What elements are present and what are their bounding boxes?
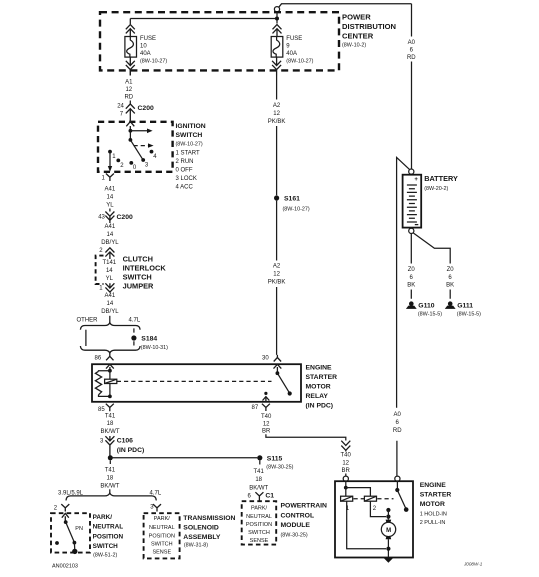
svg-text:M: M	[386, 528, 391, 534]
svg-text:BK: BK	[446, 283, 454, 289]
svg-text:YL: YL	[106, 202, 114, 208]
svg-text:3 LOCK: 3 LOCK	[176, 176, 197, 182]
ground G111	[445, 301, 481, 317]
svg-text:Z0: Z0	[408, 267, 416, 273]
svg-text:T41: T41	[105, 413, 116, 419]
svg-text:MODULE: MODULE	[281, 522, 311, 529]
connector C200 pin 43	[98, 209, 133, 224]
svg-text:NEUTRAL: NEUTRAL	[93, 524, 124, 531]
relay pin 87 contact	[263, 392, 270, 402]
splice S115	[257, 455, 293, 470]
svg-text:TRANSMISSION: TRANSMISSION	[183, 515, 235, 522]
wire A0 6 RD right vertical (upper)	[411, 4, 413, 169]
fuse F9 connector chevrons (bottom)	[272, 57, 281, 75]
svg-text:A1: A1	[125, 79, 133, 85]
svg-text:CENTER: CENTER	[342, 31, 374, 40]
svg-text:BK/WT: BK/WT	[100, 483, 119, 489]
battery eyelet (negative)	[409, 228, 414, 233]
svg-text:T40: T40	[341, 453, 352, 459]
label TRANSMISSION SOLENOID ASSEMBLY	[183, 515, 235, 549]
fuse F10	[125, 37, 137, 58]
svg-text:STARTER: STARTER	[306, 374, 338, 381]
svg-text:12: 12	[125, 87, 132, 93]
svg-text:C200: C200	[138, 105, 154, 112]
wire tick above bottom split brace	[109, 489, 111, 493]
svg-text:(8W-51-2): (8W-51-2)	[93, 552, 117, 558]
label OTHER / 4.7L split	[77, 317, 141, 323]
svg-text:12: 12	[263, 421, 270, 427]
svg-text:(8W-10-2): (8W-10-2)	[342, 43, 366, 49]
svg-text:86: 86	[95, 356, 102, 362]
ignition switch dashed arrow	[134, 143, 154, 147]
relay pin 30 entry	[262, 355, 281, 362]
svg-text:ASSEMBLY: ASSEMBLY	[183, 534, 221, 541]
connector C106 pin 3	[100, 436, 144, 456]
battery B1	[403, 175, 422, 228]
wire S115 down to PCM	[259, 460, 261, 464]
svg-text:(IN PDC): (IN PDC)	[306, 402, 334, 409]
svg-text:IGNITION: IGNITION	[176, 123, 206, 130]
svg-text:18: 18	[107, 421, 114, 427]
label A0 6 RD (starter feed)	[393, 412, 402, 434]
relay pin 87 exit	[252, 404, 270, 411]
svg-text:S115: S115	[267, 455, 283, 462]
engine starter motor relay box	[92, 364, 301, 402]
transmission solenoid pin 3 entry	[150, 504, 161, 511]
label T40 12 BR (pin 87)	[261, 414, 272, 435]
svg-text:T41: T41	[254, 469, 265, 475]
ignition switch solid arrow	[130, 129, 152, 134]
wire A2 S161 to relay 30	[276, 201, 278, 355]
svg-text:(8W-20-2): (8W-20-2)	[424, 186, 448, 192]
svg-text:A2: A2	[273, 103, 281, 109]
label FUSE 10 40A (8W-10-27)	[140, 36, 167, 64]
svg-text:12: 12	[273, 272, 280, 278]
relay switch blade	[277, 373, 291, 395]
label PARK/NEUTRAL POSITION SWITCH SENSE (TRS)	[149, 516, 175, 556]
PN switch bottom contact	[72, 541, 77, 554]
footer AN002103	[52, 563, 78, 569]
svg-text:C106: C106	[117, 437, 133, 444]
svg-text:RD: RD	[393, 428, 402, 434]
relay pin 85 exit chevron	[98, 404, 114, 413]
svg-text:STARTER: STARTER	[420, 492, 452, 499]
junction T41 at C106	[108, 455, 113, 460]
ignition switch output wire with arrow	[108, 152, 112, 172]
PDC box (dashed)	[100, 12, 339, 70]
svg-text:PN: PN	[75, 526, 83, 532]
svg-text:JUMPER: JUMPER	[123, 281, 154, 290]
park/neutral position switch box (dashed)	[51, 513, 90, 552]
label A41 14 DB/YL (lower)	[101, 293, 119, 315]
svg-text:2 RUN: 2 RUN	[176, 159, 194, 165]
svg-text:SWITCH: SWITCH	[93, 543, 119, 550]
svg-text:DISTRIBUTION: DISTRIBUTION	[342, 22, 396, 31]
svg-text:18: 18	[255, 477, 262, 483]
label POWERTRAIN CONTROL MODULE	[281, 503, 328, 539]
svg-text:(8W-10-27): (8W-10-27)	[283, 207, 310, 213]
svg-text:(8W-10-27): (8W-10-27)	[286, 59, 313, 65]
wire top from eyelet to right column	[279, 4, 412, 7]
svg-text:POSITION: POSITION	[149, 533, 175, 539]
svg-text:NEUTRAL: NEUTRAL	[246, 514, 272, 520]
wire relay coil rails	[99, 371, 110, 397]
fuse F10 connector chevrons (bottom)	[126, 57, 135, 75]
label POWER DISTRIBUTION CENTER	[342, 12, 396, 48]
svg-text:14: 14	[107, 194, 114, 200]
relay actuator dashed line	[117, 380, 272, 382]
svg-text:85: 85	[98, 407, 105, 413]
svg-text:MOTOR: MOTOR	[306, 383, 331, 390]
node B+ eyelet terminal at PDC	[274, 7, 279, 12]
relay coil	[105, 379, 117, 383]
ignition switch contact 0 OFF	[129, 161, 136, 171]
wire A1 upper stub	[129, 70, 131, 76]
wire hold-in coil to motor ground rail	[347, 501, 386, 549]
battery eyelet (positive)	[409, 169, 414, 174]
relay pin 30 edge chevron	[274, 364, 282, 373]
svg-text:J008W-1: J008W-1	[463, 561, 483, 566]
svg-text:87: 87	[252, 405, 259, 411]
label IGNITION SWITCH legend	[176, 123, 206, 191]
svg-text:NEUTRAL: NEUTRAL	[149, 525, 175, 531]
hold-in coil 1	[341, 496, 353, 512]
footer J008W-1	[463, 561, 483, 566]
label T41 18 BK/WT (below C106)	[100, 460, 119, 489]
ignition switch wiper node 1	[129, 129, 133, 133]
label CLUTCH INTERLOCK SWITCH JUMPER	[123, 255, 167, 291]
wire motor to ground	[387, 539, 389, 557]
svg-text:(IN PDC): (IN PDC)	[117, 447, 145, 454]
relay pin 86 edge chevron	[106, 364, 114, 370]
connector C200 pin 24/7	[117, 101, 154, 119]
wire T41 to S115	[110, 457, 257, 459]
svg-text:18: 18	[107, 475, 114, 481]
ignition switch contact 2 RUN	[116, 159, 124, 170]
label A0 6 RD (right top)	[407, 40, 416, 61]
label Z0 6 BK (G111)	[446, 267, 454, 288]
PN switch left contact	[55, 541, 59, 545]
ignition switch box (dashed)	[98, 122, 173, 172]
label A41 14 DB/YL	[101, 224, 119, 246]
starter switch contact feed	[395, 481, 399, 492]
relay coil top junction	[108, 369, 112, 373]
svg-text:INTERLOCK: INTERLOCK	[123, 263, 167, 272]
svg-text:PARK/: PARK/	[93, 514, 113, 521]
engine starter motor box	[335, 481, 413, 557]
svg-text:10: 10	[140, 44, 147, 50]
svg-text:SENSE: SENSE	[152, 550, 171, 556]
label PARK/NEUTRAL POSITION SWITCH	[93, 514, 124, 558]
relay pin 86 entry	[95, 353, 114, 362]
label A41 14 YL	[105, 186, 116, 208]
svg-text:PK/BK: PK/BK	[268, 280, 286, 286]
svg-text:CLUTCH: CLUTCH	[123, 255, 153, 264]
starter motor M	[381, 520, 395, 540]
svg-text:(8W-30-25): (8W-30-25)	[266, 464, 293, 470]
svg-text:(8W-10-27): (8W-10-27)	[176, 142, 203, 148]
split brace (OTHER/4.7L)	[80, 323, 140, 330]
svg-text:OTHER: OTHER	[77, 317, 99, 323]
label BATTERY (8W-20-2)	[424, 174, 458, 192]
wire pull-in coil to motor terminal	[370, 501, 386, 516]
wire to pull-in coil	[346, 488, 371, 497]
wire battery positive branch to starter	[397, 157, 410, 476]
svg-text:FUSE: FUSE	[140, 36, 156, 42]
clutch interlock jumper pin 2 chevrons	[99, 248, 114, 259]
label T40 12 BR (at starter)	[341, 453, 352, 474]
svg-text:A0: A0	[408, 40, 416, 46]
wire PDC internal bus	[130, 12, 277, 24]
svg-text:0 OFF: 0 OFF	[176, 168, 193, 174]
park/neutral position switch pin 2 entry	[54, 504, 70, 511]
label A2 12 PK/BK (lower)	[268, 264, 286, 286]
svg-text:G111: G111	[457, 303, 473, 310]
svg-text:BR: BR	[342, 468, 351, 474]
svg-text:(8W-30-25): (8W-30-25)	[281, 532, 308, 538]
junction motor ground rail	[386, 547, 390, 551]
starter battery eyelet terminal	[395, 476, 400, 481]
svg-text:CONTROL: CONTROL	[281, 512, 315, 519]
svg-text:4 ACC: 4 ACC	[176, 185, 194, 191]
resistor (relay coil suppression)	[95, 371, 101, 395]
label T141 14 YL	[102, 260, 116, 282]
ground G110	[406, 301, 442, 317]
merge brace into relay pin 86	[80, 346, 140, 353]
svg-text:BR: BR	[262, 429, 271, 435]
relay common node	[276, 371, 280, 375]
svg-text:40A: 40A	[286, 51, 297, 57]
pull-in coil 2	[364, 496, 376, 512]
svg-text:G110: G110	[418, 303, 434, 310]
svg-text:YL: YL	[106, 276, 114, 282]
svg-text:POSITION: POSITION	[93, 533, 124, 540]
svg-text:POSITION: POSITION	[246, 522, 272, 528]
svg-text:A41: A41	[105, 186, 116, 192]
svg-text:2 PULL-IN: 2 PULL-IN	[420, 520, 446, 526]
svg-text:(8W-15-5): (8W-15-5)	[418, 312, 442, 318]
svg-text:T40: T40	[261, 414, 272, 420]
svg-text:40A: 40A	[140, 51, 151, 57]
ignition switch wiper node 2	[129, 131, 133, 142]
ignition switch blade to LOCK	[130, 140, 143, 160]
svg-text:4.7L: 4.7L	[129, 317, 141, 323]
svg-text:PK/BK: PK/BK	[268, 119, 286, 125]
wire A2 fuse9 to S161	[276, 76, 278, 196]
wire T40 elbow to starter	[266, 434, 346, 440]
svg-text:SWITCH: SWITCH	[123, 272, 152, 281]
bottom split brace	[66, 493, 156, 500]
svg-text:14: 14	[106, 268, 113, 274]
svg-text:1 START: 1 START	[176, 150, 200, 156]
starter solenoid eyelet terminal	[343, 474, 348, 482]
svg-text:12: 12	[342, 460, 349, 466]
svg-text:FUSE: FUSE	[286, 36, 302, 42]
wire tick above split brace	[109, 316, 111, 323]
svg-text:SOLENOID: SOLENOID	[183, 525, 219, 532]
svg-text:DB/YL: DB/YL	[101, 240, 119, 246]
label T41 18 BK/WT (pin 85)	[101, 413, 120, 434]
svg-text:T141: T141	[102, 260, 116, 266]
svg-text:PARK/: PARK/	[154, 516, 171, 522]
svg-text:AN002103: AN002103	[52, 563, 78, 569]
svg-text:BK/WT: BK/WT	[101, 429, 120, 435]
powertrain control module connector box (dashed)	[242, 501, 277, 544]
starter switch blade	[397, 490, 408, 512]
svg-text:(8W-31-8): (8W-31-8)	[184, 543, 208, 549]
svg-text:12: 12	[273, 111, 280, 117]
label A2 12 PK/BK (upper)	[268, 103, 286, 125]
fuse F9 connector chevrons (top)	[273, 25, 282, 37]
ignition switch pin 1 exit chevron	[102, 174, 114, 182]
svg-text:DB/YL: DB/YL	[101, 309, 119, 315]
svg-text:C200: C200	[117, 214, 133, 221]
splice S161	[274, 195, 310, 212]
ground starter case	[383, 558, 393, 563]
starter feed connector chevrons	[341, 441, 350, 452]
svg-text:SWITCH: SWITCH	[151, 542, 173, 548]
svg-text:RELAY: RELAY	[306, 393, 329, 400]
wire battery negative to G110	[410, 234, 412, 299]
svg-text:SWITCH: SWITCH	[248, 530, 270, 536]
relay coil bottom junction	[108, 395, 112, 399]
svg-text:POWER: POWER	[342, 12, 371, 21]
fuse F10 connector chevrons (top)	[126, 25, 135, 37]
PN switch blade	[66, 522, 75, 542]
clutch interlock jumper pin 1 chevrons	[99, 283, 114, 292]
junction solenoid coils	[344, 486, 348, 490]
svg-text:Z0: Z0	[447, 267, 455, 273]
label 3.9L/5.9L / 4.7L	[58, 490, 162, 496]
svg-text:(8W-15-5): (8W-15-5)	[457, 312, 481, 318]
svg-text:A0: A0	[394, 412, 402, 418]
svg-text:BK: BK	[407, 283, 415, 289]
svg-text:14: 14	[107, 301, 114, 307]
label ENGINE STARTER MOTOR 1 HOLD-IN 2 PULL-IN	[420, 482, 452, 526]
label Z0 6 BK (G110)	[407, 267, 415, 288]
splice S184	[131, 335, 168, 351]
svg-text:T41: T41	[105, 467, 116, 473]
wire solenoid feed inside starter	[345, 481, 347, 487]
motor terminal junctions	[386, 508, 390, 520]
svg-text:30: 30	[262, 355, 269, 361]
PN switch label PN	[75, 526, 83, 532]
svg-text:1 HOLD-IN: 1 HOLD-IN	[420, 511, 447, 517]
svg-text:BK/WT: BK/WT	[249, 485, 268, 491]
svg-text:RD: RD	[407, 55, 416, 61]
wire battery negative to G111	[413, 233, 450, 299]
svg-text:ENGINE: ENGINE	[306, 365, 333, 372]
svg-text:C1: C1	[265, 493, 274, 500]
wire 4.7L branch (dashed)	[133, 328, 135, 346]
fuse F9	[271, 37, 283, 58]
label FUSE 9 40A (8W-10-27)	[286, 36, 313, 64]
label PARK/NEUTRAL POSITION SWITCH SENSE (PCM)	[246, 505, 272, 544]
svg-text:S161: S161	[284, 196, 300, 203]
solenoid actuator dashed line	[354, 498, 394, 500]
ignition switch contact 3 LOCK	[141, 158, 149, 168]
svg-text:SWITCH: SWITCH	[176, 132, 203, 139]
svg-text:24: 24	[117, 104, 124, 110]
svg-text:A41: A41	[105, 224, 116, 230]
svg-text:ENGINE: ENGINE	[420, 482, 447, 489]
svg-text:SENSE: SENSE	[250, 538, 269, 544]
junction under eyelet	[275, 17, 279, 21]
ignition switch contact 1 START	[108, 150, 116, 160]
svg-text:PARK/: PARK/	[251, 505, 268, 511]
svg-text:A2: A2	[273, 264, 281, 270]
PN switch top contact	[64, 520, 68, 524]
svg-text:(8W-10-27): (8W-10-27)	[140, 59, 167, 65]
clutch interlock jumper dashed bracket	[96, 256, 104, 284]
svg-text:A41: A41	[105, 293, 116, 299]
label ENGINE STARTER MOTOR RELAY (IN PDC)	[306, 365, 338, 410]
svg-text:POWERTRAIN: POWERTRAIN	[281, 503, 328, 510]
svg-text:MOTOR: MOTOR	[420, 501, 445, 508]
svg-text:+: +	[414, 177, 418, 183]
label A1 12 RD	[124, 79, 133, 100]
svg-text:S184: S184	[141, 336, 157, 343]
wire OTHER branch	[85, 330, 87, 346]
svg-text:43: 43	[98, 215, 105, 221]
PN switch entry chevron	[62, 513, 69, 521]
ignition switch pin entry chevron (top)	[126, 118, 134, 131]
label T41 18 BK/WT (PCM branch)	[249, 469, 268, 491]
svg-text:BATTERY: BATTERY	[424, 174, 458, 183]
svg-text:RD: RD	[124, 94, 133, 100]
transmission solenoid assembly box (dashed)	[144, 513, 180, 558]
svg-text:14: 14	[107, 232, 114, 238]
svg-text:(8W-10-31): (8W-10-31)	[141, 345, 168, 351]
ignition switch contact 4 ACC	[150, 150, 158, 160]
connector C1 pin 6 entry	[248, 492, 275, 500]
